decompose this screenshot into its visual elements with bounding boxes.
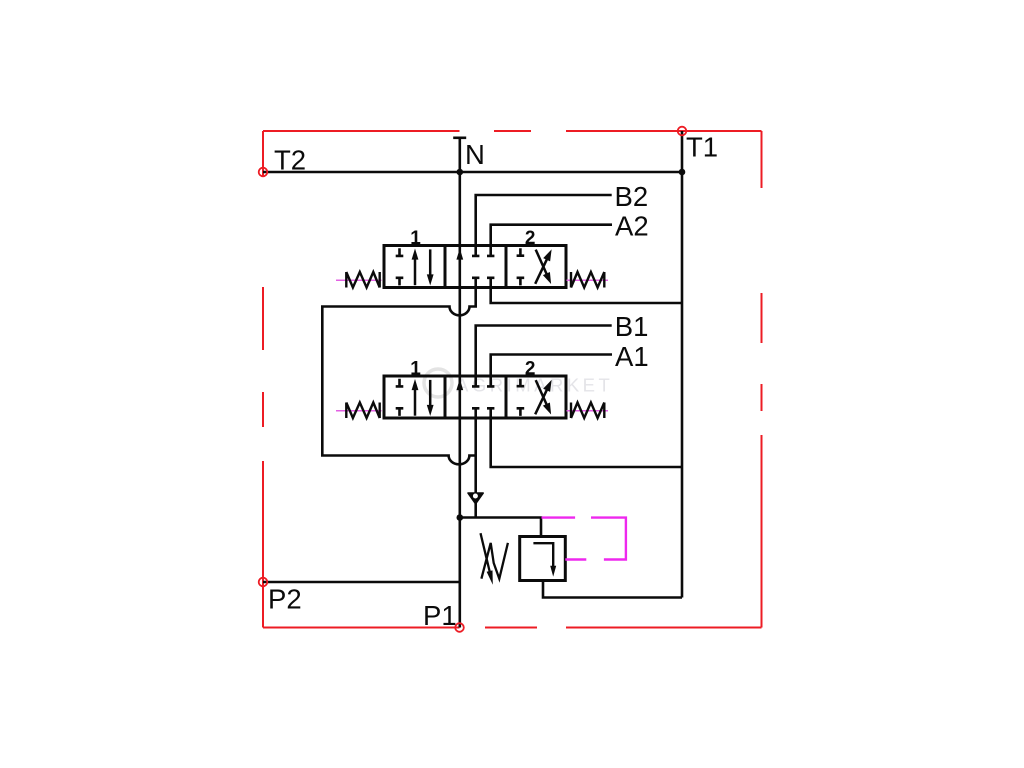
wire A1 (491, 355, 612, 377)
relief valve adjust arrow (481, 533, 490, 572)
svg-text:A1: A1 (615, 341, 649, 372)
relief valve spring (481, 543, 508, 579)
port ring T2 (259, 168, 268, 177)
port ring P1 (455, 623, 464, 632)
wire relief drain (543, 581, 682, 598)
svg-text:A2: A2 (615, 211, 649, 242)
wire valve2 tank return (491, 418, 682, 467)
svg-text:N: N (465, 139, 485, 170)
svg-text:P1: P1 (423, 600, 457, 631)
enclosure dashed border (red) (263, 131, 762, 628)
wire carry-over with hops (322, 288, 475, 465)
port ring P2 (259, 578, 268, 587)
junction dot T1-Tline (679, 169, 686, 176)
wire N / pump vertical (458, 138, 461, 628)
wire T1 vertical (681, 131, 684, 598)
port N tick (453, 137, 466, 140)
svg-text:T1: T1 (686, 132, 718, 163)
relief valve body (520, 537, 566, 581)
svg-text:P2: P2 (268, 583, 302, 614)
svg-text:B2: B2 (615, 181, 649, 212)
relief valve internal path (533, 543, 553, 566)
junction dot pump (457, 514, 464, 521)
svg-text:T2: T2 (274, 145, 306, 176)
relief valve pilot line (magenta dashed) (542, 518, 626, 560)
wire P2 (263, 581, 460, 584)
svg-text:B1: B1 (615, 311, 649, 342)
port ring T1 (678, 127, 687, 136)
wire T2-T1 tank line (263, 171, 682, 174)
directional valve V2 (336, 359, 608, 419)
wire B1 (476, 326, 612, 377)
watermark logo circle (424, 369, 452, 397)
wire pump to relief (460, 518, 541, 537)
junction dot N-Tline (457, 169, 464, 176)
wire valve2 supply down (474, 418, 477, 518)
symbol flow direction triangle (468, 493, 483, 504)
directional valve V1 (336, 228, 608, 288)
wire B2 (476, 195, 612, 246)
wire A2 (491, 225, 612, 246)
wire valve1 tank return (491, 288, 682, 304)
